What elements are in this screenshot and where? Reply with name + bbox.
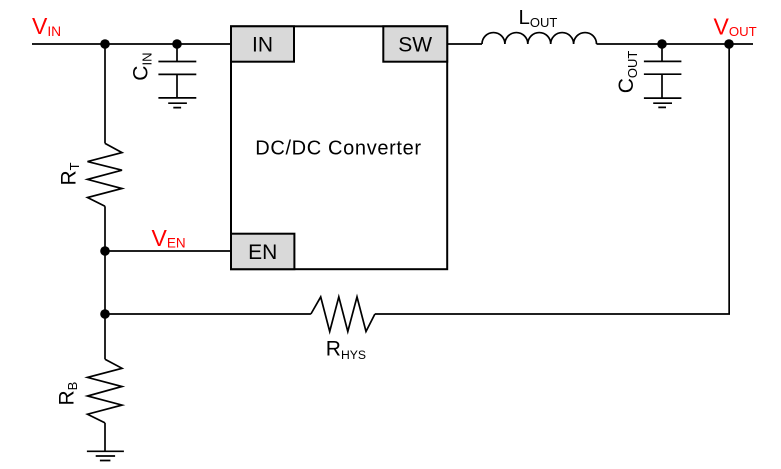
inductor LOUT <box>482 33 597 44</box>
IC U1 DC/DC Converter body <box>231 26 447 269</box>
svg-text:EN: EN <box>248 241 277 264</box>
capacitor COUT bottom lead <box>661 74 663 98</box>
node F junction dot (HYS tap) <box>100 309 110 319</box>
resistor RB <box>88 359 123 423</box>
wire VIN rail upper segment <box>104 44 106 143</box>
pin EN box <box>231 234 294 270</box>
node A junction dot (VIN rail top) <box>100 39 110 49</box>
pin SW box <box>383 26 447 61</box>
wire inductor to VOUT <box>597 43 754 45</box>
pin IN box <box>231 26 294 61</box>
node D junction dot (VOUT) <box>724 39 734 49</box>
wire VIN to IN pin <box>32 43 231 45</box>
capacitor CIN top lead <box>176 44 178 62</box>
capacitor CIN plates <box>158 62 196 75</box>
resistor RHYS <box>311 297 375 332</box>
ground (main) <box>87 451 124 460</box>
node B junction dot (CIN tap) <box>172 39 182 49</box>
capacitor COUT top lead <box>661 44 663 61</box>
wire SW to inductor <box>447 43 482 45</box>
wire RT bottom to RB top (through EN and HYS nodes) <box>104 206 106 359</box>
wire RB to ground <box>104 423 106 451</box>
wire HYS right segment and VOUT rail <box>375 44 729 314</box>
capacitor COUT plates <box>644 61 682 74</box>
ground (CIN) <box>158 98 196 108</box>
wire EN <box>105 250 231 252</box>
wire HYS left segment <box>105 313 311 315</box>
node E junction dot (EN tap) <box>100 246 110 256</box>
svg-text:SW: SW <box>398 33 432 56</box>
capacitor CIN bottom lead <box>176 74 178 98</box>
svg-text:IN: IN <box>252 33 273 56</box>
ground (COUT) <box>644 98 682 107</box>
node C junction dot (COUT tap) <box>657 39 667 49</box>
resistor RT <box>88 143 123 206</box>
svg-text:DC/DC Converter: DC/DC Converter <box>255 137 421 159</box>
